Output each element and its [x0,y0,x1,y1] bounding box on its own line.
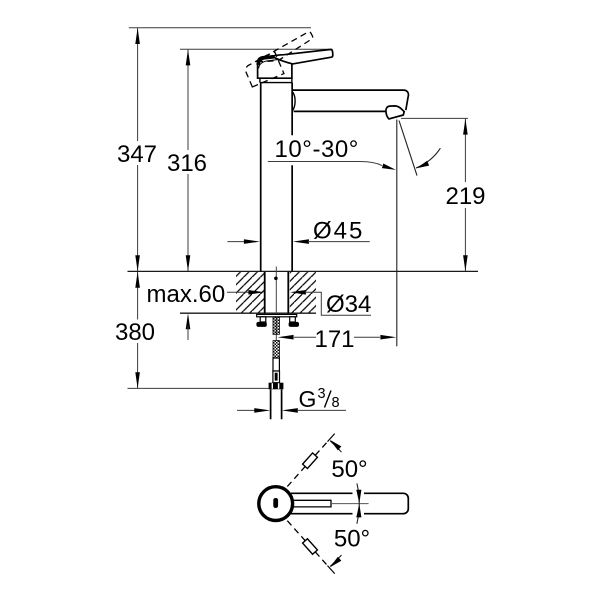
svg-text:Ø34: Ø34 [326,291,371,318]
svg-text:8: 8 [332,395,340,411]
extension line spout top (316 top) [180,48,333,50]
upper 50 dashed rect [303,453,318,469]
handle cap dark top-left band [258,56,283,65]
arrow 219 top [463,119,468,135]
counter top line [128,270,479,272]
arrow 316 bottom [186,255,191,271]
svg-text:Ø45: Ø45 [313,217,364,244]
pipe [271,389,282,419]
top view body circle [259,487,293,521]
svg-text:50°: 50° [334,525,370,552]
gap in lever edges at angle arrows [353,492,365,495]
svg-text:3: 3 [318,386,326,402]
lower 50 dashed line [287,521,327,566]
spout bottom line [294,110,387,112]
svg-text:50°: 50° [331,456,367,483]
lower 50 dashed rect [303,539,318,555]
svg-text:316: 316 [167,150,207,177]
svg-text:347: 347 [117,141,157,168]
handle lever [272,49,333,63]
dim line 316 [187,50,189,272]
svg-text:max.60: max.60 [147,281,226,308]
threaded stud upper [273,317,279,334]
leader max.60 / Ø34 left arrow [227,291,250,293]
mounting flange [257,314,297,316]
arrow 380 bottom [135,372,140,388]
center line [275,267,277,341]
spout top line [292,90,408,110]
upper 50 arc at dashed line [330,441,341,452]
hose fitting [273,371,280,383]
dim line 219 [464,119,466,271]
arrow 347 bottom [135,255,140,271]
dim G3/8 [237,409,255,411]
arrow max.60 bottom (points up at counter underside) [186,313,191,329]
lower 50 arc at lever [357,504,359,524]
spout left bulge [292,92,295,112]
svg-text:219: 219 [445,183,485,210]
arrow 380 top [135,272,140,288]
counter hatch left [236,272,264,313]
svg-text:171: 171 [314,326,354,353]
top view lever [291,493,408,513]
handle cap [258,55,292,78]
aerator [386,106,404,119]
upper 50 dashed line [287,442,327,487]
stream slanted line [399,121,417,176]
10-30 angle arc [416,148,440,168]
counter bottom line [180,312,316,314]
svg-text:380: 380 [115,319,155,346]
faucet body right edge (gap for 10-30 text) [291,83,293,272]
upper 50 arc at lever [357,483,359,503]
arrow 347 top [135,28,140,44]
arrow 316 top [186,49,191,65]
top view lever inner detail [292,500,331,507]
counter hatch right [290,272,316,313]
handle skirt [259,78,293,82]
10-30 arc arrow [417,161,430,169]
extension line bottom (380 bottom) [128,387,269,389]
Ø34 right arrow + leader [290,290,306,295]
extension line top of faucet (347 top) [129,27,311,29]
top view handle slot [273,498,278,508]
faucet body left edge [260,83,262,272]
G3/8 nut [269,383,284,390]
threaded stud lower [273,341,279,358]
lower 50 arc at dashed line [330,555,341,566]
extension line 219 top [401,117,468,119]
center dot [274,277,278,281]
shank right edge [287,272,289,314]
handle cap bevel line [259,59,284,69]
bolt right [290,317,296,322]
dim 171 [294,336,380,338]
svg-text:10°-30°: 10°-30° [275,136,359,163]
leader 10-30 [268,162,382,166]
dim Ø45 [227,241,245,243]
shank left edge [264,272,266,314]
svg-text:G: G [299,386,317,412]
dim line 347 [137,28,139,271]
dim line 380 [137,272,139,389]
stream vertical extension line [396,120,398,347]
dashed handle (raised position) [241,31,321,87]
stud plain section [273,358,279,371]
top view center line [331,503,369,505]
arrow 219 bottom [463,255,468,271]
bolt left [260,317,266,322]
